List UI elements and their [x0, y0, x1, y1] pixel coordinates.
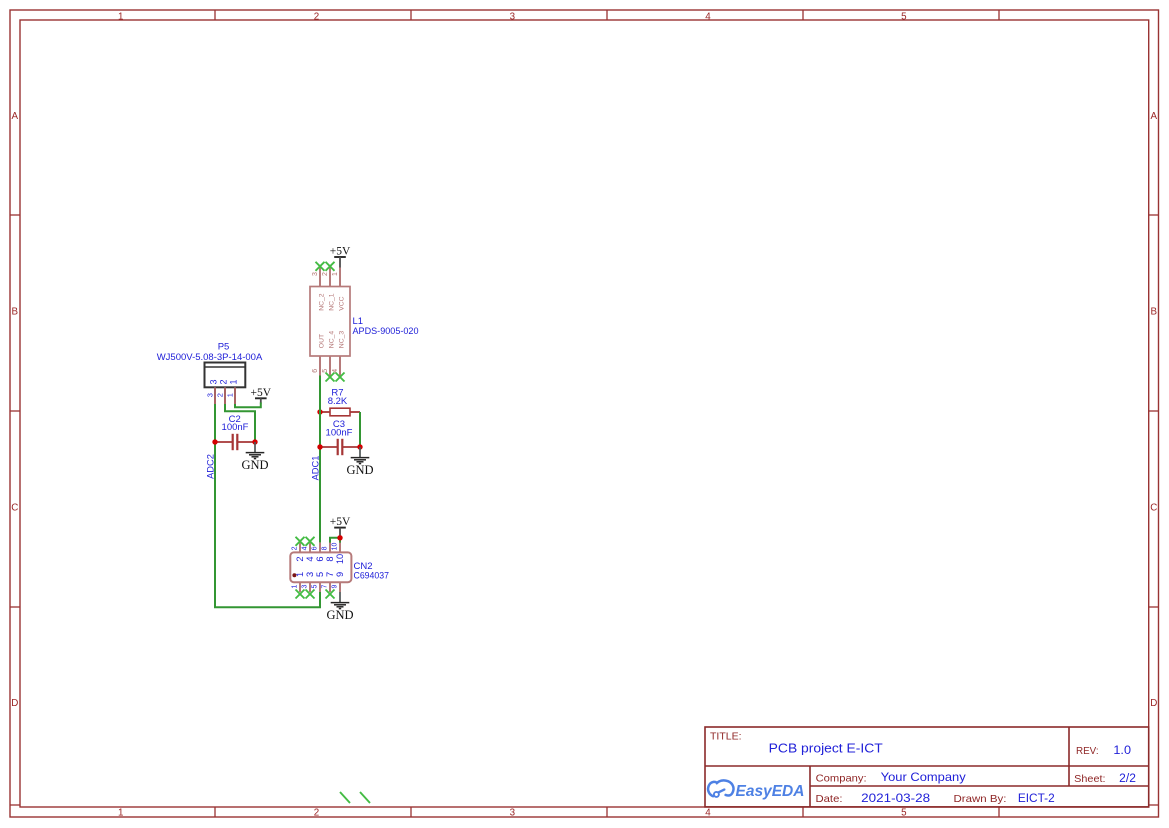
P5 pin 2 stub	[224, 387, 226, 405]
svg-text:+5V: +5V	[330, 246, 351, 258]
svg-text:NC_2: NC_2	[318, 293, 325, 311]
wire ADC2 bottom to CN2 pin5	[214, 592, 320, 608]
svg-text:WJ500V-5.08-3P-14-00A: WJ500V-5.08-3P-14-00A	[157, 352, 263, 363]
CN2 pin 3 stub bottom	[309, 582, 311, 592]
wire P5 pin2 to C2 right	[225, 404, 255, 442]
svg-text:2021-03-28: 2021-03-28	[861, 791, 930, 805]
svg-text:10: 10	[335, 554, 345, 564]
frame column ticks top	[215, 10, 999, 20]
svg-text:3: 3	[305, 572, 315, 577]
svg-text:4: 4	[705, 808, 711, 819]
svg-text:3: 3	[312, 272, 319, 276]
svg-text:C: C	[11, 502, 18, 513]
svg-text:EICT-2: EICT-2	[1018, 793, 1055, 805]
svg-text:Sheet:: Sheet:	[1074, 773, 1105, 785]
svg-text:ADC2: ADC2	[206, 454, 216, 479]
svg-text:2: 2	[314, 808, 319, 819]
svg-text:100nF: 100nF	[326, 427, 353, 438]
svg-text:NC_4: NC_4	[328, 331, 335, 349]
svg-text:10: 10	[331, 543, 338, 551]
svg-text:4: 4	[705, 11, 711, 22]
svg-text:2: 2	[322, 272, 329, 276]
svg-text:D: D	[11, 698, 18, 709]
junction dot ADC2/C2	[212, 439, 217, 444]
CN2 pin 10 stub top	[339, 543, 341, 553]
svg-text:2: 2	[291, 546, 298, 550]
svg-text:6: 6	[312, 369, 319, 373]
svg-text:2: 2	[314, 11, 319, 22]
svg-text:6: 6	[315, 556, 325, 561]
connector P5 body	[205, 363, 246, 388]
L1 pin 1	[339, 268, 341, 287]
svg-text:GND: GND	[241, 458, 268, 472]
part L1 box	[310, 287, 350, 357]
no-connect X on CN2 pin 2	[296, 537, 305, 546]
wire +5V to CN2 pin 10	[339, 538, 341, 543]
junction dot ADC1/R7	[317, 409, 322, 414]
CN2 pin 6 stub top	[319, 543, 321, 553]
svg-text:B: B	[1151, 307, 1158, 318]
svg-text:Company:: Company:	[816, 772, 867, 784]
resistor R7	[320, 408, 360, 416]
svg-text:B: B	[12, 307, 19, 318]
EasyEDA logo cloud	[708, 780, 733, 797]
svg-text:1: 1	[291, 585, 298, 589]
capacitor C2	[215, 434, 255, 450]
CN2 pin 1 stub bottom	[299, 582, 301, 592]
wire ADC1 vertical	[319, 376, 321, 543]
P5 pin 3 stub	[214, 387, 216, 405]
svg-text:5: 5	[901, 11, 907, 22]
frame row labels right	[1150, 111, 1157, 709]
wire ADC2 vertical	[214, 404, 216, 607]
svg-text:7: 7	[321, 585, 328, 589]
svg-text:D: D	[1150, 698, 1157, 709]
svg-text:C694037: C694037	[354, 571, 390, 582]
svg-text:2/2: 2/2	[1119, 773, 1136, 785]
frame row ticks right	[1149, 215, 1159, 805]
svg-text:1: 1	[118, 808, 123, 819]
svg-text:GND: GND	[326, 608, 353, 622]
L1 pin 4	[339, 356, 341, 376]
power flag +5V (CN2)	[330, 516, 351, 538]
svg-text:+5V: +5V	[251, 387, 272, 399]
power flag +5V (P5)	[251, 387, 272, 404]
L1 pin 6	[319, 356, 321, 376]
frame column labels bottom	[118, 808, 907, 819]
svg-text:5: 5	[315, 572, 325, 577]
CN2 pin1 marker dot	[292, 573, 296, 577]
junction dot ADC1/C3	[317, 444, 322, 449]
ground GND (CN2 pin 9)	[326, 592, 353, 622]
frame column ticks bottom	[215, 807, 999, 817]
no-connect X on CN2 pin 3	[306, 590, 315, 599]
svg-text:OUT: OUT	[318, 334, 325, 348]
wire P5 pin1 to +5V	[235, 403, 261, 408]
svg-text:P5: P5	[218, 341, 230, 352]
svg-text:3: 3	[510, 808, 516, 819]
svg-text:5: 5	[322, 369, 329, 373]
no-connect X on CN2 pin 7	[326, 590, 335, 599]
svg-text:5: 5	[311, 585, 318, 589]
svg-text:9: 9	[335, 572, 345, 577]
svg-text:VCC: VCC	[338, 296, 345, 310]
svg-text:1.0: 1.0	[1113, 745, 1131, 757]
stray wire segment 2	[360, 792, 370, 803]
CN2 pin 9 stub bottom	[339, 582, 341, 592]
svg-text:C: C	[1150, 502, 1157, 513]
no-connect X on CN2 pin 1	[296, 590, 305, 599]
svg-text:8: 8	[325, 556, 335, 561]
P5 pin 1 stub	[234, 387, 236, 405]
ground GND (C3)	[346, 447, 373, 477]
frame row labels left	[11, 111, 18, 709]
part CN2 box	[290, 552, 351, 582]
junction dot C3 right	[357, 444, 362, 449]
no-connect X on L1 pin 2	[326, 262, 335, 271]
svg-text:6: 6	[311, 546, 318, 550]
svg-text:5: 5	[901, 808, 907, 819]
svg-text:A: A	[1151, 111, 1158, 122]
svg-text:Date:: Date:	[816, 793, 843, 805]
frame row ticks left	[10, 215, 20, 805]
CN2 pin 8 stub top	[329, 543, 331, 553]
no-connect X on L1 pin 3	[316, 262, 325, 271]
svg-text:REV:: REV:	[1076, 745, 1099, 757]
L1 pin 2	[329, 268, 331, 287]
CN2 pin 4 stub top	[309, 543, 311, 553]
wire +5V to CN2 pin 8	[330, 538, 340, 543]
svg-text:8.2K: 8.2K	[328, 396, 348, 407]
svg-text:3: 3	[209, 379, 219, 384]
junction dot C2 right	[252, 439, 257, 444]
svg-text:4: 4	[305, 556, 315, 561]
stray wire segment 1	[340, 792, 350, 803]
svg-text:NC_3: NC_3	[338, 331, 345, 349]
no-connect X on CN2 pin 4	[306, 537, 315, 546]
svg-text:1: 1	[295, 572, 305, 577]
svg-text:3: 3	[301, 585, 308, 589]
svg-text:4: 4	[332, 369, 339, 373]
CN2 pin 5 stub bottom	[319, 582, 321, 592]
ground GND (C2)	[241, 442, 268, 472]
svg-text:2: 2	[295, 556, 305, 561]
svg-text:2: 2	[216, 393, 225, 397]
svg-text:9: 9	[331, 585, 338, 589]
frame column labels top	[118, 11, 907, 22]
svg-text:1: 1	[226, 393, 235, 397]
svg-text:4: 4	[301, 546, 308, 550]
L1 pin 3	[319, 268, 321, 287]
svg-text:8: 8	[321, 546, 328, 550]
svg-text:3: 3	[510, 11, 516, 22]
svg-text:EasyEDA: EasyEDA	[736, 783, 805, 800]
svg-text:PCB project E-ICT: PCB project E-ICT	[769, 742, 883, 756]
svg-text:1: 1	[118, 11, 123, 22]
junction dot CN2 +5V	[337, 535, 342, 540]
svg-text:Drawn By:: Drawn By:	[954, 793, 1007, 805]
svg-text:TITLE:: TITLE:	[710, 731, 742, 743]
svg-text:2: 2	[219, 379, 229, 384]
svg-text:APDS-9005-020: APDS-9005-020	[353, 326, 419, 337]
svg-text:3: 3	[206, 393, 215, 397]
svg-text:A: A	[12, 111, 19, 122]
svg-text:+5V: +5V	[330, 516, 351, 528]
svg-text:1: 1	[332, 272, 339, 276]
power flag +5V (L1)	[330, 246, 351, 268]
CN2 pin 7 stub bottom	[329, 582, 331, 592]
svg-text:ADC1: ADC1	[310, 456, 320, 481]
title block outline	[705, 727, 1149, 807]
capacitor C3	[320, 439, 360, 455]
svg-text:7: 7	[325, 572, 335, 577]
svg-text:NC_1: NC_1	[328, 293, 335, 311]
svg-text:GND: GND	[346, 463, 373, 477]
wire R7 right to C3 right	[359, 412, 361, 447]
CN2 pin 2 stub top	[299, 543, 301, 553]
no-connect X on L1 pin 5	[326, 373, 335, 382]
svg-text:Your Company: Your Company	[881, 770, 966, 784]
svg-text:100nF: 100nF	[222, 422, 249, 433]
L1 pin 5	[329, 356, 331, 376]
no-connect X on L1 pin 4	[336, 373, 345, 382]
svg-text:1: 1	[229, 379, 239, 384]
